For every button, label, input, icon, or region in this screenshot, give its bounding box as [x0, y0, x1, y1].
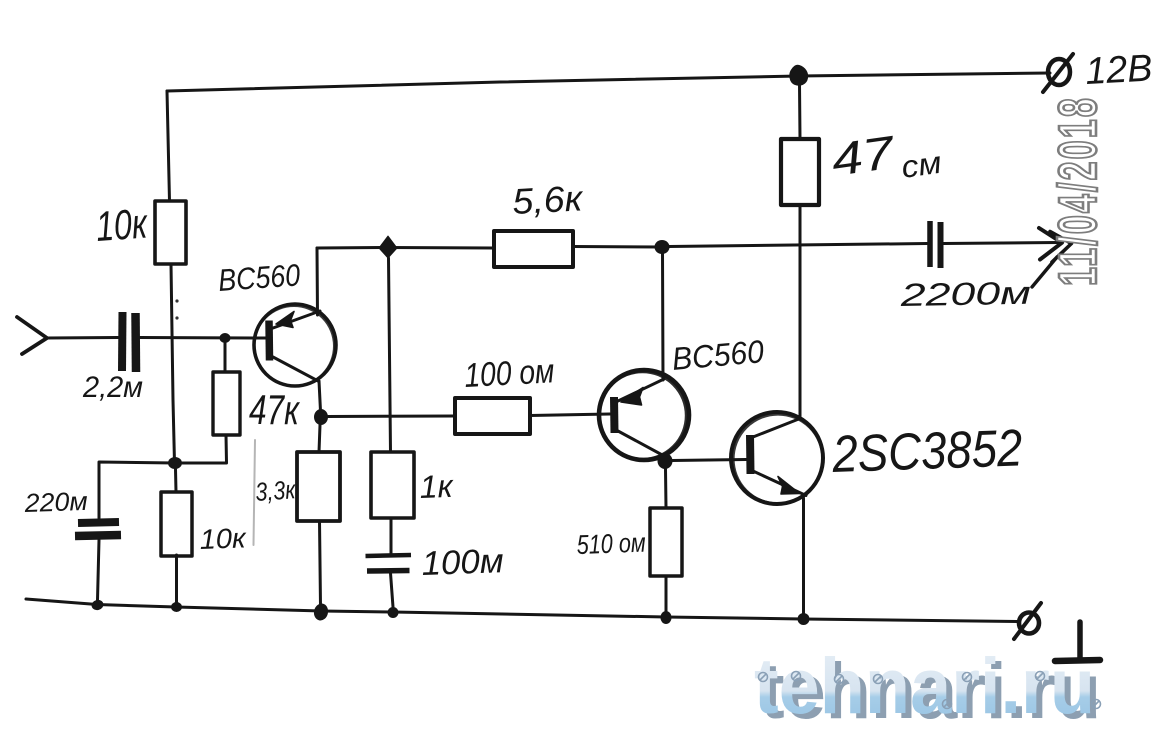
svg-text:2200м: 2200м: [899, 275, 1031, 313]
transistor Q1 BC560 circle: [254, 304, 336, 386]
svg-text:100 ом: 100 ом: [463, 352, 555, 395]
svg-text:1к: 1к: [419, 468, 455, 505]
wire R6 right to node C: [573, 245, 662, 249]
wire R1 bottom down across input line to node A: [171, 264, 175, 463]
node dot on +12V rail: [790, 66, 807, 85]
resistor R1 10k (upper left): [155, 201, 186, 264]
wire node D down to R8: [664, 469, 668, 508]
wire R2 bottom to node A: [177, 435, 227, 463]
svg-text:2SC3852: 2SC3852: [831, 419, 1024, 484]
resistor R5 1k: [371, 452, 414, 518]
wire R3 bottom to ground rail: [175, 555, 178, 602]
output arrow tail stroke: [1032, 257, 1057, 287]
svg-text:10к: 10к: [94, 199, 150, 250]
svg-text:12В: 12В: [1084, 48, 1153, 93]
wire node A to R3: [174, 469, 178, 492]
date stamp 11/04/2018 (rotated, outlined): [1047, 98, 1108, 286]
Q1 emitter segment up-right: [273, 311, 320, 328]
Q2 base bar: [610, 397, 619, 433]
capacitor C2 220u plates: [78, 522, 119, 523]
svg-text:3,3к: 3,3к: [254, 474, 297, 507]
wire diamond down to R5: [389, 258, 391, 452]
svg-text:510 ом: 510 ом: [576, 528, 646, 560]
Q2 emitter wire up to node C: [661, 253, 665, 380]
wire R9 top to +12V rail: [798, 84, 802, 139]
Q1 collector wire down to node B: [319, 381, 321, 411]
wire top +12V rail: [167, 73, 1050, 91]
svg-text:tehnari.ru: tehnari.ru: [754, 641, 1095, 730]
capacitor C1 2.2u plates: [118, 312, 127, 371]
Q2 collector segment down-right: [618, 431, 666, 457]
ground symbol: [1077, 622, 1083, 658]
Q3 collector segment up-right: [753, 419, 800, 438]
Q1 emitter wire up to rail corner: [316, 248, 320, 315]
resistor R6 5.6k (horizontal): [494, 231, 573, 267]
faint pencil line: [254, 440, 256, 545]
ground rail dots: [90, 599, 104, 612]
wire node A left to C2: [99, 462, 175, 518]
Q3 emitter segment down-right: [753, 471, 806, 496]
wire 47k branch from dot down: [224, 343, 227, 373]
Q3 collector wire up to R9: [799, 205, 802, 419]
wire node B to R7: [328, 415, 455, 419]
wire C4 to output arrow: [943, 243, 1058, 244]
Q3 emitter wire down to ground rail: [802, 498, 805, 613]
svg-text:47: 47: [828, 126, 898, 186]
wire node C to output cap: [669, 244, 927, 247]
Q1 emitter arrow (points into base): [276, 312, 294, 328]
resistor R8 510ohm: [650, 508, 682, 576]
wire C1 to base Q1: [140, 336, 266, 340]
watermark tehnari.ru: [754, 641, 1101, 735]
Q2 emitter segment up-right: [618, 379, 664, 401]
svg-text:BC560: BC560: [670, 333, 765, 377]
transistor Q2 BC560 circle: [599, 370, 689, 460]
Q3 base bar: [746, 435, 755, 474]
Q3 emitter arrow (points outward): [778, 477, 800, 495]
node C dot: [655, 240, 670, 254]
supply terminal circle with slash (12V): [1048, 59, 1070, 85]
output arrow chevrons: [1039, 228, 1062, 260]
wire C2 to ground rail: [98, 540, 100, 600]
wire R8 bottom to ground rail: [665, 576, 668, 612]
diamond junction on emitter rail: [379, 236, 397, 258]
resistor R4 3.3k: [297, 452, 340, 521]
svg-text:10к: 10к: [199, 522, 248, 555]
resistor R3 10k (lower): [161, 492, 192, 556]
svg-text:100м: 100м: [421, 542, 504, 583]
watermark small o-slash marks: [759, 672, 1101, 709]
terminal circle with slash at rail end: [1019, 613, 1039, 634]
svg-text:5,6к: 5,6к: [511, 177, 585, 222]
ground rail (bottom): [26, 599, 1018, 622]
svg-text:2,2м: 2,2м: [82, 371, 143, 404]
Q1 base bar: [265, 321, 273, 361]
capacitor C4 2200u plates: [927, 221, 933, 267]
input arrow: [17, 317, 47, 354]
node dot at base/47k junction: [220, 333, 231, 343]
svg-text:см: см: [899, 145, 943, 185]
capacitor C3 100u plates: [366, 555, 412, 556]
node B dot: [314, 409, 328, 425]
node D dot (Q2 collector): [658, 453, 673, 469]
wire node B down to R4: [319, 425, 320, 452]
svg-text:11/04/2018: 11/04/2018: [1047, 98, 1108, 286]
wire C3 to ground rail: [391, 573, 394, 607]
transistor Q3 2SC3852 circle: [731, 412, 823, 504]
wire R4 bottom to ground rail: [320, 521, 321, 606]
svg-text:47к: 47к: [249, 386, 301, 433]
Q2 emitter arrow: [621, 388, 643, 406]
svg-text:BC560: BC560: [217, 257, 301, 298]
wire R7 right to Q2 base: [530, 414, 610, 416]
wire left vertical from rail to R1: [167, 91, 170, 201]
Q1 collector segment down-right: [273, 357, 319, 382]
resistor R9 47ohm (top right): [781, 139, 819, 205]
scan specks: [175, 299, 178, 302]
node A dot: [168, 457, 182, 469]
resistor R2 47k: [213, 372, 240, 435]
wire input to C1: [47, 336, 118, 340]
emitter rail y=247 from corner to R6: [317, 246, 494, 250]
wire node D to Q3 base: [672, 460, 746, 461]
wire R5 bottom to C3: [390, 518, 393, 553]
resistor R7 100ohm (horizontal): [455, 398, 530, 434]
svg-text:220м: 220м: [23, 486, 88, 518]
